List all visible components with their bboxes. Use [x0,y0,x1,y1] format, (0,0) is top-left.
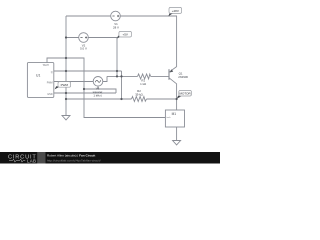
label Q1 [178,72,188,80]
svg-text:MOTOR: MOTOR [180,92,192,96]
IC box U1 [27,63,53,98]
wire motor to ground [176,127,178,141]
svg-text:PWM: PWM [61,83,69,87]
svg-text:PWM: PWM [47,81,53,84]
svg-text:M1: M1 [172,112,177,116]
svg-text:39 kΩ: 39 kΩ [135,92,143,96]
node flag +28V [168,7,181,16]
Q1 emitter arrow [170,69,174,72]
svg-text:+28V: +28V [172,9,179,13]
wire right drop to Q1 emitter [176,16,178,67]
watermark logo LAB [9,159,25,162]
transistor Q1 [169,67,177,84]
resistor R2 [132,97,147,102]
svg-text:Robert Allen (aircolts) | Fan: Robert Allen (aircolts) | Fan Circuit [47,154,95,158]
wire y89 row [84,89,116,93]
svg-text:U1: U1 [36,74,40,78]
voltage source V1 [111,11,121,21]
svg-text:2N3906: 2N3906 [178,75,188,79]
wire collector drop to motor [176,84,178,110]
svg-text:28 V: 28 V [113,25,119,29]
node flag PWM [55,82,71,90]
wire R1 base row [107,75,138,77]
wire GND pin row [54,92,116,94]
voltage source V2 [79,33,89,43]
wire TACH loop [47,58,165,118]
watermark gray block [37,152,45,164]
ground G1 [62,116,70,120]
motor box M1 [165,110,184,127]
svg-text:LAB: LAB [27,158,36,163]
label V1 value [113,22,119,29]
function generator V3 [93,77,103,87]
label R1 value [140,79,147,86]
svg-text:Q: Q [51,71,53,74]
svg-text:http://circuitlab.com/c/4yu7ab: http://circuitlab.com/c/4yu7ab/fan-circu… [47,158,101,162]
wire V2 row [66,37,117,39]
svg-text:TACH: TACH [42,64,49,67]
watermark bar [0,152,220,164]
wire R1 to base [151,75,169,77]
resistor R1 [138,74,151,79]
wire drop x121.5 [121,71,123,99]
wire R2 to collector node [147,98,177,100]
svg-text:GND: GND [47,93,53,96]
label V2 value [80,43,87,50]
wire left rail x66 [65,16,67,116]
wire PWM row [54,81,93,83]
node flag MOTOR [177,90,192,98]
wire V2 corner drop x117 [116,38,118,77]
wire top rail V1 [66,15,177,17]
svg-text:1 kHz): 1 kHz) [93,93,101,97]
wire sine bottom stub [97,86,99,89]
label R2 value [135,89,143,97]
svg-text:1 kΩ: 1 kΩ [140,82,147,86]
wire sine right riser [103,76,107,81]
svg-text:5.0 V: 5.0 V [80,47,87,51]
svg-text:+5V: +5V [122,33,127,37]
node flag +5V [117,31,132,38]
ground G2 [173,141,181,145]
wire R2 row [66,98,132,100]
junction node dots [65,36,178,100]
wire Q pin row [54,70,122,72]
label V3 value [93,86,103,97]
